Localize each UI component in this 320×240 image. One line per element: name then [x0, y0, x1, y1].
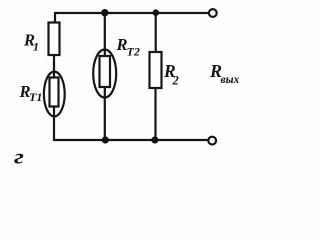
thermistor RT1 envelope	[44, 72, 65, 117]
svg-text:вых: вых	[221, 74, 240, 86]
terminal bottom output	[208, 137, 216, 145]
svg-text:Т2: Т2	[127, 45, 140, 59]
wire lead R1 to RT1	[53, 54, 55, 78]
junction top node B	[153, 9, 160, 16]
wire lead top junction to R2	[155, 12, 157, 53]
wire bottom bus	[54, 139, 208, 141]
wire lead RT2 to bottom bus	[104, 86, 106, 141]
terminal top output	[209, 9, 217, 17]
label R1	[23, 31, 39, 54]
label Rvykh output	[209, 61, 240, 86]
svg-text:2: 2	[172, 74, 179, 88]
svg-text:Т1: Т1	[29, 90, 42, 104]
wire lead top of R1	[54, 12, 56, 23]
thermistor RT1 body	[50, 78, 59, 107]
wire lead R2 to bottom bus	[154, 87, 156, 141]
junction bottom node B	[151, 136, 158, 143]
label R2	[163, 61, 179, 88]
resistor R2	[150, 52, 162, 88]
junction top node A	[101, 9, 108, 16]
wire top bus	[55, 12, 209, 14]
svg-text:г: г	[14, 146, 24, 169]
thermistor RT2 envelope	[93, 50, 116, 98]
wire lead RT1 to bottom bus	[53, 106, 55, 141]
junction bottom node A	[102, 136, 109, 143]
wire lead top junction to RT2	[104, 12, 106, 57]
resistor R1	[49, 23, 60, 56]
label RT1	[19, 82, 43, 104]
svg-text:1: 1	[33, 40, 39, 54]
thermistor RT2 body	[100, 56, 111, 87]
label RT2	[116, 35, 140, 59]
